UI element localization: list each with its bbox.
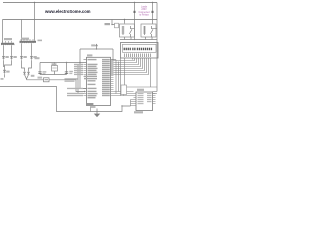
wire mid rect step right: [29, 61, 32, 72]
relay K2 coil: [143, 26, 146, 35]
switch S1 body: [121, 85, 127, 95]
diode D1: [2, 56, 4, 61]
label U1 pin rows right: [102, 59, 110, 96]
capacitor C2 leg: [66, 63, 68, 75]
label cap values: [65, 78, 78, 80]
wire fuse to MCU corner: [49, 80, 84, 92]
node arrow into pin: [84, 91, 86, 93]
wire relay1b to row: [130, 37, 132, 40]
wire mid rect V join: [25, 75, 29, 80]
label U3 name: [134, 111, 143, 113]
wire bottom right bus: [127, 86, 158, 88]
wire drop from top bus to TR2 right: [34, 3, 36, 41]
label U1 pin rows left: [84, 59, 98, 99]
wire LCD d4: [111, 58, 143, 69]
ground bus main: [0, 87, 131, 112]
wire pin wrap left c: [78, 65, 84, 94]
label D1: [5, 56, 8, 58]
wire pin wrap left b: [80, 63, 87, 89]
wire LCD rs: [132, 58, 134, 60]
node J1b: [34, 19, 35, 20]
label D5: [6, 71, 9, 73]
IC U3 pin column: [130, 100, 132, 107]
wire 12V rail: [40, 62, 87, 64]
IC U3 right pins: [153, 94, 156, 104]
regulator U2 lead top: [54, 63, 56, 66]
diode D6: [23, 72, 25, 74]
label D6 D7: [31, 75, 35, 77]
wire LCD d2: [111, 58, 139, 65]
label osc text: [91, 44, 95, 46]
wire LCD d6: [111, 58, 147, 73]
label U2: [52, 63, 57, 65]
wire u3 right 2: [153, 93, 158, 95]
wire gnd bus reg: [40, 74, 67, 76]
wire second bus N: [3, 19, 158, 21]
relay K1 coil: [122, 26, 125, 35]
node J3: [152, 2, 153, 3]
switch S1 lead: [123, 95, 125, 96]
wire right edge bus: [156, 3, 158, 92]
node J5: [111, 24, 112, 25]
wire relay row bottom bus: [120, 39, 157, 41]
label C2: [69, 71, 73, 72]
LCD characters: [124, 48, 153, 51]
label U2 inside: [52, 67, 56, 69]
label U1 outside left rows: [67, 64, 83, 96]
wire LCD led long: [150, 58, 152, 87]
wire 5V riser: [79, 49, 81, 63]
wire left output: [4, 75, 6, 78]
diode D5: [3, 70, 5, 75]
wire TR1 sec right: [11, 45, 13, 55]
wire LCD d0: [111, 58, 135, 61]
wire C1 leg: [39, 63, 41, 75]
transformer TR1 core: [1, 43, 14, 45]
wire relay2b to row: [151, 37, 153, 40]
wire TR2 sec left: [21, 43, 23, 55]
label U1: [87, 54, 92, 56]
wire TR1 sec left: [3, 45, 5, 55]
node J8: [96, 48, 97, 49]
transformer TR2 primary ticks: [21, 39, 33, 41]
IC U1 MCU body: [87, 57, 111, 105]
wire relay1 to row: [124, 37, 126, 40]
label D2: [13, 56, 16, 58]
transformer TR1 primary ticks: [3, 41, 12, 43]
transformer TR1 secondary: [2, 43, 15, 45]
transistor Q1 body: [115, 23, 119, 28]
IC U1 right pins: [111, 60, 114, 90]
fuse F1: [44, 78, 50, 82]
IC U3 driver body: [136, 92, 153, 111]
label U1 name: [87, 103, 93, 105]
LCD pin header: [125, 54, 151, 58]
relay K2 contact: [150, 26, 157, 37]
label TR2 right: [38, 40, 43, 42]
diode D3: [20, 56, 22, 61]
label under U1: [90, 106, 96, 108]
label TR2: [21, 38, 29, 40]
wire LCD d3: [111, 58, 141, 67]
diode D2: [10, 56, 12, 61]
wire MCLR drop2: [116, 60, 134, 94]
wire left rect merge b: [5, 61, 12, 70]
label C1: [43, 71, 47, 72]
wire pin wrap a: [119, 62, 134, 92]
label left out: [1, 78, 4, 80]
regulator U2 lead bottom: [54, 71, 56, 75]
wire LCD d5: [111, 58, 145, 71]
wire lamp drop 2: [152, 3, 154, 25]
wire LCD d7: [111, 58, 149, 75]
wire MCLR drop: [111, 49, 117, 60]
label Q1 driver: [105, 23, 111, 25]
label U3 rows: [138, 93, 152, 104]
diode D4: [30, 56, 32, 61]
label D3: [23, 56, 26, 58]
relay K1 box: [120, 24, 135, 37]
wire lamp drop 1: [134, 3, 136, 40]
power +5V arrow: [96, 44, 98, 49]
wire TR2 sec right: [31, 43, 33, 55]
wire drop to TR2 left: [21, 20, 23, 41]
IC U1 left pins: [84, 60, 87, 96]
relay K2 box: [141, 24, 156, 37]
svg-text:www.electroSome.com: www.electroSome.com: [44, 9, 90, 15]
wire LCD rs drop: [121, 58, 134, 96]
lamp L2: [152, 11, 154, 13]
wire vss tick: [90, 108, 92, 112]
svg-text:Connected: Connected: [138, 11, 150, 14]
label C1 region text: [35, 57, 40, 59]
node J12: [134, 39, 135, 40]
node J9: [112, 59, 113, 60]
label U3: [137, 89, 144, 91]
wire rect output to fuse: [27, 79, 44, 81]
diode D7: [27, 72, 29, 74]
LCD module outer: [121, 43, 159, 59]
transformer TR2 core: [20, 41, 37, 43]
node J7: [79, 62, 80, 63]
ground symbol: [95, 109, 100, 117]
relay K1 contact: [129, 26, 134, 37]
node J2: [134, 2, 135, 3]
wire 5V top run: [80, 48, 113, 50]
node J1: [34, 2, 35, 3]
LCD screen inner: [123, 44, 157, 52]
capacitor C2: [65, 72, 68, 74]
wire LCD d1: [111, 58, 137, 63]
wire right edge to U3: [153, 91, 158, 93]
label D4: [33, 56, 36, 58]
svg-text:to Relays: to Relays: [139, 13, 149, 16]
node J11: [96, 111, 97, 112]
lamp L1: [134, 11, 136, 13]
transistor Q1 stub: [112, 20, 115, 25]
wire relay2 to row: [145, 37, 147, 40]
capacitor C1: [38, 72, 41, 74]
node J6: [66, 62, 67, 63]
wire mcu right bottom stubs: [111, 92, 121, 96]
wire top supply bus L: [3, 2, 157, 4]
transformer TR2 secondary: [20, 41, 33, 43]
node J10: [121, 105, 122, 106]
label TR1: [4, 38, 12, 40]
node J4: [124, 19, 125, 20]
label gnd text: [38, 77, 43, 79]
wire left rect merge a: [4, 61, 5, 67]
wire left drop to TR1: [2, 20, 4, 43]
wire mid rect step left: [22, 61, 25, 72]
wire relay1 coil feed: [124, 20, 126, 24]
IC U3 left pins: [131, 94, 137, 107]
regulator U2 body: [52, 66, 58, 72]
wire LCD vss long: [124, 58, 126, 85]
